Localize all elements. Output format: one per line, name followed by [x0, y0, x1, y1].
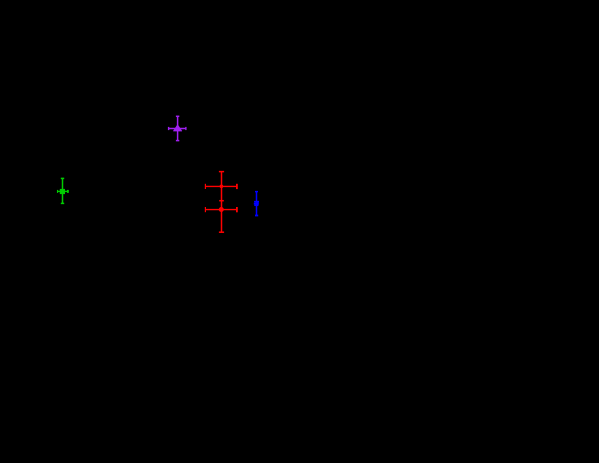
purple triangle marker P1 [174, 125, 182, 131]
left cap G1 [57, 190, 59, 193]
blue data point B1 error bars [255, 191, 258, 216]
red circle marker R1 [220, 185, 224, 189]
purple data point P1 error bars [169, 116, 186, 141]
wire vertical error bar G1 [62, 178, 64, 204]
right cap R2 [236, 207, 238, 212]
blue star marker B1 [254, 201, 259, 206]
top cap R1 [219, 171, 224, 173]
top cap G1 [61, 177, 64, 179]
middle cap R1/R2 [219, 200, 224, 202]
wire horizontal error bar R1 [205, 185, 237, 187]
bottom cap R2 [219, 231, 224, 233]
wire horizontal error bar R2 [205, 209, 237, 211]
right cap R1 [236, 184, 238, 189]
wire vertical error bar P1 [177, 116, 179, 141]
top cap P1 [176, 115, 179, 117]
bottom cap B1 [255, 215, 258, 217]
top cap B1 [255, 191, 258, 193]
wire vertical error bar B1 [256, 191, 258, 216]
right cap P1 [185, 127, 187, 130]
wire vertical error bar R1+R2 [221, 171, 223, 233]
left cap R1 [204, 184, 206, 189]
left cap P1 [168, 127, 170, 130]
red circle marker R2 [219, 207, 224, 212]
bottom cap G1 [61, 202, 64, 204]
green data point G1 error bars [58, 178, 68, 204]
right cap G1 [67, 190, 69, 193]
wire horizontal error bar P1 [169, 128, 186, 130]
left cap R2 [204, 207, 206, 212]
bottom cap P1 [176, 140, 179, 142]
red data points R1 R2 error bars [205, 171, 237, 233]
wire horizontal error bar G1 [58, 190, 68, 192]
green square marker G1 [60, 189, 65, 194]
